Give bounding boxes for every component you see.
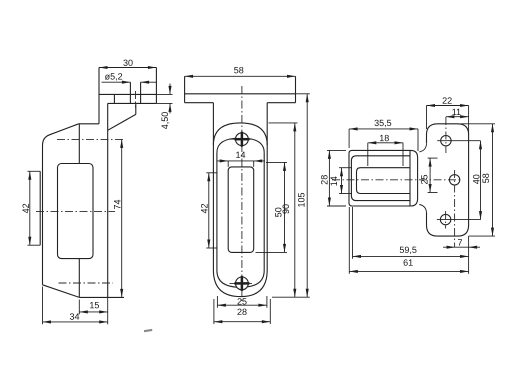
- svg-text:42: 42: [21, 203, 31, 213]
- svg-text:15: 15: [89, 300, 99, 310]
- svg-text:58: 58: [234, 65, 244, 75]
- svg-text:42: 42: [199, 203, 209, 213]
- svg-text:14: 14: [329, 176, 339, 186]
- svg-text:40: 40: [471, 174, 481, 184]
- svg-text:ø5,2: ø5,2: [105, 71, 123, 81]
- svg-text:34: 34: [69, 312, 79, 322]
- svg-text:25: 25: [420, 174, 430, 184]
- svg-text:74: 74: [112, 199, 122, 209]
- svg-text:4,50: 4,50: [160, 112, 170, 130]
- svg-text:59,5: 59,5: [399, 245, 417, 255]
- svg-text:58: 58: [481, 173, 491, 183]
- svg-text:28: 28: [319, 175, 329, 185]
- svg-text:7: 7: [457, 237, 462, 247]
- svg-text:35,5: 35,5: [374, 118, 392, 128]
- svg-text:105: 105: [296, 192, 306, 207]
- svg-text:22: 22: [442, 96, 452, 106]
- svg-text:11: 11: [452, 107, 461, 117]
- svg-text:25: 25: [237, 296, 247, 306]
- svg-text:28: 28: [237, 307, 247, 317]
- svg-text:18: 18: [379, 133, 389, 143]
- svg-text:30: 30: [123, 58, 133, 68]
- svg-text:90: 90: [281, 204, 291, 214]
- svg-text:61: 61: [403, 258, 413, 268]
- svg-text:14: 14: [235, 150, 245, 160]
